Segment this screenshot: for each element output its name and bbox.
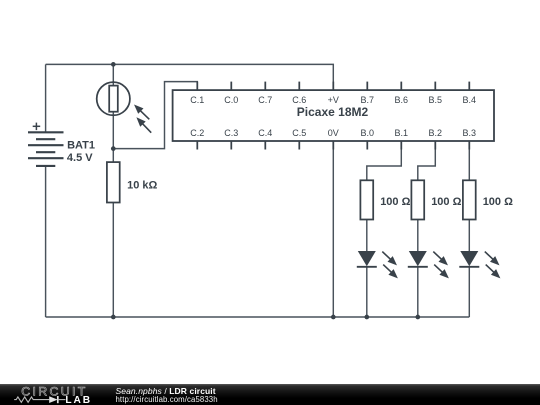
resistor R2 100 Ohm	[360, 180, 373, 219]
wire resistor to LED anode	[468, 220, 470, 252]
svg-text:B.2: B.2	[429, 128, 443, 138]
wire pin B.2 to resistor R3	[418, 141, 436, 180]
svg-text:Picaxe 18M2: Picaxe 18M2	[297, 105, 369, 119]
battery BAT1 4.5 V	[28, 132, 64, 166]
LED D2 light arrow 1	[433, 252, 442, 260]
wire battery top lead	[45, 64, 47, 132]
wire LED cathode to ground rail	[468, 267, 470, 317]
CircuitLab logo resistor zigzag	[14, 397, 49, 402]
wire pin B.1 to resistor R2	[367, 141, 402, 180]
svg-text:C.0: C.0	[224, 95, 238, 105]
wire LED cathode to ground rail	[417, 267, 419, 317]
junction node: LED D2 / ground rail	[415, 315, 420, 320]
wire LDR top lead	[112, 64, 114, 86]
wire 10k resistor bottom lead to ground rail	[112, 203, 114, 318]
junction node: LDR top / +V rail	[111, 62, 116, 67]
LED D2 light arrow 2	[434, 265, 443, 273]
LED D3 light arrow 2	[486, 265, 495, 273]
IC bottom pin stubs	[197, 141, 469, 150]
battery plus sign	[33, 123, 41, 131]
resistor R3 100 Ohm	[411, 180, 424, 219]
footer url text	[116, 395, 218, 404]
photoresistor LDR circle	[97, 82, 130, 115]
wire resistor to LED anode	[366, 220, 368, 252]
resistor R4 100 Ohm	[463, 180, 476, 219]
svg-text:C.2: C.2	[190, 128, 204, 138]
svg-text:B.3: B.3	[463, 128, 477, 138]
junction node: 0V / ground rail	[331, 315, 336, 320]
photoresistor LDR body	[109, 86, 118, 112]
svg-text:LAB: LAB	[65, 395, 92, 405]
svg-text:B.4: B.4	[463, 95, 477, 105]
svg-text:C.4: C.4	[258, 128, 272, 138]
svg-text:B.7: B.7	[361, 95, 375, 105]
svg-text:+V: +V	[328, 95, 339, 105]
LED D1 light arrow 1	[382, 252, 391, 260]
wire bottom ground rail	[46, 316, 470, 318]
LED D1 light arrow 2	[383, 265, 392, 273]
wire battery bottom lead	[45, 166, 47, 317]
junction node: LDR / 10k / C.1	[111, 146, 116, 151]
photoresistor light arrow 2	[142, 123, 151, 132]
wire 0V pin to ground rail	[332, 141, 334, 317]
resistor 10 k	[107, 162, 120, 202]
svg-text:100 Ω: 100 Ω	[483, 196, 513, 208]
footer bar	[0, 384, 540, 405]
footer title text	[116, 386, 216, 396]
svg-text:BAT1: BAT1	[67, 139, 95, 151]
svg-text:C.5: C.5	[292, 128, 306, 138]
LED D3 triangle	[460, 251, 478, 266]
svg-text:B.5: B.5	[429, 95, 443, 105]
wire 10k resistor top lead	[112, 149, 114, 163]
svg-text:0V: 0V	[328, 128, 339, 138]
svg-text:4.5 V: 4.5 V	[67, 152, 93, 164]
LED D2 triangle	[409, 251, 427, 266]
svg-text:B.1: B.1	[395, 128, 409, 138]
svg-text:B.0: B.0	[361, 128, 375, 138]
svg-text:100 Ω: 100 Ω	[380, 196, 410, 208]
LED D1 cathode bar	[357, 266, 377, 268]
IC top pin stubs	[197, 82, 469, 91]
photoresistor light arrow 1	[140, 110, 149, 119]
LED D2 cathode bar	[408, 266, 428, 268]
svg-text:B.6: B.6	[395, 95, 409, 105]
svg-text:C.6: C.6	[292, 95, 306, 105]
CircuitLab logo diode	[49, 396, 57, 403]
junction node: LED D1 / ground rail	[364, 315, 369, 320]
wire top positive rail from battery to +V pin	[46, 64, 334, 90]
svg-text:10 kΩ: 10 kΩ	[127, 179, 157, 191]
wire LED cathode to ground rail	[366, 267, 368, 317]
LED D3 cathode bar	[459, 266, 479, 268]
wire resistor to LED anode	[417, 220, 419, 252]
LED D3 light arrow 1	[485, 252, 494, 260]
svg-text:C.3: C.3	[224, 128, 238, 138]
wire LDR bottom lead	[112, 111, 114, 149]
LED D1 triangle	[358, 251, 376, 266]
junction node: 10k bottom / ground rail	[111, 315, 116, 320]
wire pin B.3 to resistor R4	[468, 141, 470, 180]
wire from LDR/R1 node to pin C.1	[113, 82, 197, 149]
svg-text:100 Ω: 100 Ω	[431, 196, 461, 208]
svg-text:C.7: C.7	[258, 95, 272, 105]
svg-text:C.1: C.1	[190, 95, 204, 105]
IC U1 Picaxe 18M2 body	[173, 90, 494, 141]
